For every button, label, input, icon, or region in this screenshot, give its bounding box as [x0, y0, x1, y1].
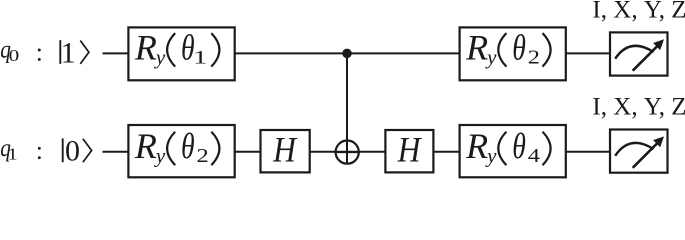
- svg-text:R: R: [134, 28, 157, 68]
- svg-text:θ: θ: [181, 126, 195, 166]
- svg-text:4: 4: [528, 145, 540, 167]
- svg-text:0: 0: [65, 135, 80, 168]
- svg-text:θ: θ: [512, 27, 526, 67]
- svg-text:2: 2: [197, 145, 209, 167]
- svg-text:1: 1: [61, 36, 76, 69]
- svg-text:2: 2: [528, 46, 540, 68]
- svg-text:y: y: [154, 144, 166, 168]
- svg-text:R: R: [465, 28, 488, 68]
- svg-text:y: y: [154, 45, 166, 69]
- svg-text:1: 1: [193, 47, 207, 69]
- svg-text:R: R: [134, 126, 157, 166]
- svg-text:H: H: [397, 131, 422, 170]
- svg-text:y: y: [485, 144, 497, 168]
- svg-text:1: 1: [7, 145, 17, 164]
- svg-text:y: y: [485, 45, 497, 69]
- svg-text:0: 0: [9, 47, 20, 66]
- svg-text:θ: θ: [512, 126, 526, 166]
- svg-text:R: R: [465, 126, 488, 166]
- svg-text:H: H: [272, 131, 297, 170]
